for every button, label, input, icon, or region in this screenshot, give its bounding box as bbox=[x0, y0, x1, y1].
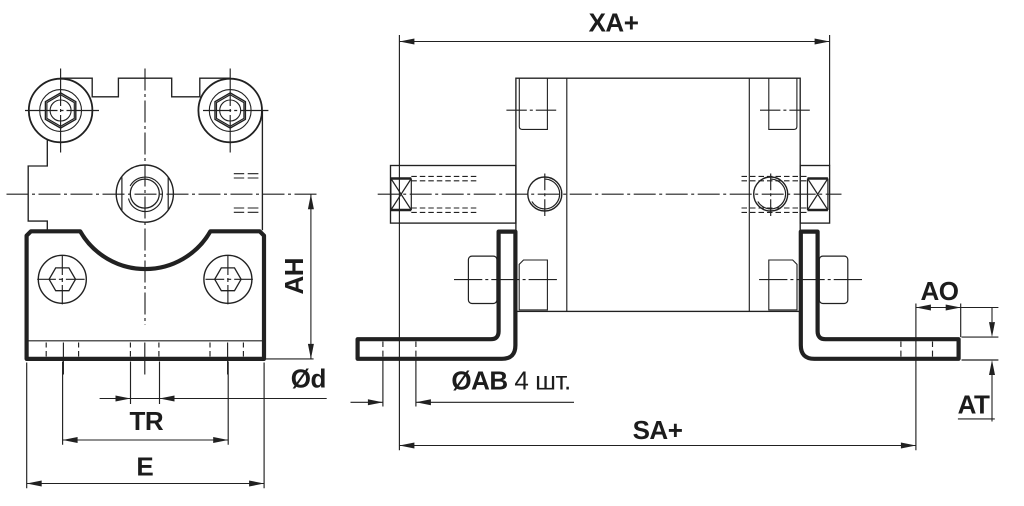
dimension SA+ left arrow bbox=[399, 443, 414, 449]
screw M1 socket hexagon outer bbox=[45, 93, 75, 128]
screw M2 chamfer circle bbox=[209, 90, 251, 132]
dimension AO right arrow bbox=[946, 305, 961, 311]
dimension OAB extension lines bbox=[383, 361, 416, 407]
screw M4 hexagon bbox=[215, 268, 241, 291]
cushioning screw circle right bbox=[754, 177, 788, 211]
cushioning screw thread arc right bbox=[758, 179, 786, 209]
svg-text:AH: AH bbox=[279, 258, 309, 295]
rod hidden thread lines left inner bbox=[411, 181, 478, 208]
screw M4 bottom-right circle bbox=[204, 255, 252, 303]
dimension AT label underline bbox=[958, 418, 995, 420]
screw M1 socket hexagon inner bbox=[47, 95, 74, 127]
dimension SA+ right arrow bbox=[901, 443, 916, 449]
dimension AO line bbox=[916, 307, 999, 309]
mounting bolt centerline left bbox=[454, 279, 557, 281]
dimension OAB line right tail bbox=[416, 401, 574, 403]
foot bracket HNC thick outline bbox=[27, 231, 264, 359]
rod thread crossed square right bbox=[808, 179, 828, 211]
foot bracket left thick L profile bbox=[358, 232, 516, 359]
dimension OAB left arrow bbox=[368, 399, 383, 405]
center hole thread arc bbox=[129, 177, 163, 211]
svg-text:Ød: Ød bbox=[291, 364, 326, 394]
main horizontal centerline left view bbox=[7, 193, 319, 195]
mounting bolt centerline right bbox=[759, 279, 862, 281]
dimension XA+ left arrow bbox=[399, 39, 414, 45]
dimension E left arrow bbox=[27, 481, 42, 487]
base hole edge ticks left pair bbox=[46, 343, 78, 357]
dimension TR right arrow bbox=[213, 437, 228, 443]
screw M2 socket hexagon inner bbox=[217, 95, 244, 127]
base hole edge ticks right pair bbox=[210, 343, 243, 357]
hidden port dashes right side row1 bbox=[234, 173, 259, 175]
cap boundary left bbox=[566, 78, 568, 311]
dimension AT extension lines bbox=[962, 337, 999, 360]
dimension SA+ line bbox=[399, 445, 916, 447]
svg-text:XA+: XA+ bbox=[589, 7, 639, 37]
screw M3 hexagon bbox=[49, 268, 75, 291]
svg-text:AT: AT bbox=[958, 390, 990, 420]
hidden port dashes right side row3 bbox=[234, 207, 259, 209]
screw M2 vertical centerline bbox=[229, 69, 231, 153]
dimension E line bbox=[27, 483, 264, 485]
hidden port dashes right side row4 bbox=[234, 211, 259, 213]
svg-text:SA+: SA+ bbox=[633, 415, 683, 445]
screw M2 top-right: head circle bbox=[198, 79, 262, 143]
dimension E extension lines bbox=[27, 363, 264, 489]
foot bracket right thick L profile bbox=[801, 232, 959, 359]
rod boss right rectangle bbox=[800, 166, 829, 224]
cap boundary right bbox=[748, 78, 750, 311]
center hole outer circle bbox=[116, 165, 173, 222]
main vertical centerline left view bbox=[144, 69, 146, 326]
dimension TR line bbox=[63, 439, 229, 441]
dimension AT upper shaft and arrow bbox=[991, 308, 993, 323]
mounting bolt boss left bbox=[519, 260, 547, 310]
body outline left edge with step bbox=[28, 139, 47, 230]
dimension AT lower shaft and arrow bbox=[991, 375, 993, 422]
cushion screw vertical centerline right bbox=[770, 174, 772, 217]
center hole bore circle bbox=[130, 179, 159, 208]
screw M1 horizontal centerline bbox=[25, 110, 99, 112]
center hole left flat bbox=[121, 177, 123, 210]
dimension OAB right arrow bbox=[416, 399, 431, 405]
mounting bolt head left bbox=[468, 256, 497, 303]
dimension AH line bbox=[310, 194, 312, 359]
rod hidden thread lines right inner bbox=[742, 181, 808, 208]
screw M1 inner circle bbox=[50, 100, 71, 121]
foot hole hidden lines right bbox=[901, 342, 933, 357]
port top-left centerline bbox=[506, 109, 556, 111]
base hole edge ticks center pair bbox=[130, 343, 159, 357]
screw M3 horizontal centerline bbox=[37, 278, 84, 280]
port recess top-right bbox=[769, 78, 797, 129]
dimension SA+ right extension / hole centerline bbox=[915, 304, 917, 451]
foot hole hidden lines left bbox=[383, 342, 416, 357]
dimension AH top arrow bbox=[308, 194, 314, 209]
screw M3 bottom-left circle bbox=[38, 255, 86, 303]
dimension XA+ left extension / hole centerline bbox=[398, 35, 400, 450]
svg-text:ØAB 4 шт.: ØAB 4 шт. bbox=[451, 365, 570, 395]
dimension Od left arrow bbox=[116, 396, 131, 402]
port top-right centerline bbox=[760, 109, 810, 111]
center hole right flat bbox=[167, 177, 169, 210]
body outline top edge with notches bbox=[61, 78, 231, 97]
screw M1 vertical centerline bbox=[60, 69, 62, 153]
cushion screw vertical centerline left bbox=[544, 174, 546, 217]
cushioning screw thread arc left bbox=[532, 179, 560, 209]
body outline right edge bbox=[261, 111, 263, 231]
cylinder body rectangle bbox=[516, 78, 800, 311]
dimension E right arrow bbox=[249, 481, 264, 487]
dimension Od extension lines bbox=[131, 362, 160, 405]
dimension XA+ right arrow bbox=[815, 39, 830, 45]
screw M1 top-left: head circle bbox=[29, 79, 93, 143]
port recess top-left bbox=[519, 78, 547, 129]
svg-text:TR: TR bbox=[129, 406, 163, 436]
dimension TR left arrow bbox=[63, 437, 78, 443]
dimension XA+ right extension bbox=[829, 35, 831, 166]
screw M2 horizontal centerline bbox=[203, 110, 269, 112]
dimension Od right arrow bbox=[160, 396, 175, 402]
screw M2 socket hexagon outer bbox=[215, 93, 245, 128]
mounting bolt head right bbox=[819, 256, 848, 303]
dimension AH bottom extension line bbox=[266, 358, 314, 360]
screw M1 chamfer circle bbox=[40, 90, 82, 132]
rod boss left rectangle bbox=[391, 166, 516, 224]
svg-text:AO: AO bbox=[921, 276, 959, 306]
svg-text:E: E bbox=[136, 452, 153, 482]
main horizontal centerline right view bbox=[378, 193, 842, 195]
screw M4 horizontal centerline bbox=[206, 278, 253, 280]
rod thread crossed square left bbox=[391, 179, 411, 211]
dimension TR extension lines bbox=[63, 362, 229, 445]
cushioning screw circle left bbox=[528, 177, 562, 211]
dimension OAB line left tail bbox=[351, 401, 383, 403]
centerline stubs below base bbox=[63, 343, 227, 375]
dimension AO end extension bbox=[960, 304, 962, 338]
screw M2 inner circle bbox=[220, 100, 241, 121]
dimension XA+ line bbox=[399, 41, 829, 43]
screw M4 vertical centerline bbox=[227, 256, 229, 305]
dimension AO left arrow bbox=[916, 305, 931, 311]
mounting bolt boss right bbox=[769, 260, 797, 310]
dimension AH bottom arrow bbox=[308, 344, 314, 359]
rod hidden thread lines right outer bbox=[742, 176, 808, 212]
hidden port dashes right side row2 bbox=[234, 177, 259, 179]
screw M3 vertical centerline bbox=[61, 256, 63, 305]
foot base top line bbox=[28, 340, 262, 342]
dimension Od line bbox=[100, 398, 327, 400]
rod hidden thread lines left outer bbox=[411, 176, 478, 212]
